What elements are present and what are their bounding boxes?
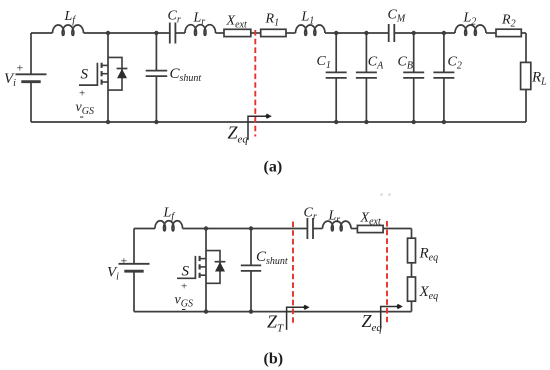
svg-text:(b): (b) — [264, 351, 284, 368]
wire: (a) CA branch upper — [365, 33, 367, 72]
capacitor C2 — [433, 72, 454, 78]
svg-text:(a): (a) — [264, 159, 283, 176]
svg-text:+: + — [79, 88, 85, 100]
svg-text:S: S — [182, 264, 190, 280]
wire: (a) right side down to RL — [525, 33, 527, 62]
wire: (a) Cr to Lr — [175, 32, 185, 34]
junction: (a) CB top node — [412, 31, 416, 35]
inductor Lf (b) — [155, 221, 183, 231]
transistor S (b) MOSFET gate lead — [177, 256, 195, 278]
svg-text:-: - — [182, 301, 186, 316]
wire: (a) L2 to R2 — [486, 32, 496, 34]
junction: (b) source node bottom — [204, 309, 208, 313]
transistor S (a) MOSFET channel bars — [101, 63, 103, 85]
voltage source Vi (b) — [119, 264, 150, 271]
capacitor CB — [403, 72, 424, 78]
wire: (a) C2 branch upper — [443, 33, 445, 72]
reactance box Xeq (vertical) — [408, 277, 416, 301]
wire: (b) Cr to Lr — [313, 228, 323, 230]
inductor Lf (a) — [53, 25, 84, 35]
faint print artifacts — [380, 193, 391, 196]
wire: (b) switch branch — [205, 229, 207, 312]
wire: (a) CB branch upper — [413, 33, 415, 72]
svg-text:L1: L1 — [301, 10, 315, 27]
wire: (a) Xext to R1 — [251, 32, 261, 34]
svg-text:ZT: ZT — [267, 312, 284, 335]
svg-text:Zeq: Zeq — [362, 311, 383, 334]
svg-text:Cr: Cr — [304, 206, 317, 223]
wire: (a) R1 to L1 — [286, 32, 296, 34]
svg-text:Vi: Vi — [107, 265, 119, 283]
svg-text:C2: C2 — [448, 55, 462, 72]
svg-text:C1: C1 — [317, 54, 331, 71]
svg-text:R1: R1 — [265, 12, 280, 29]
capacitor CM — [389, 24, 395, 42]
wire: (a) L1 to CM — [325, 32, 389, 34]
wire: (a) C1 branch upper — [335, 33, 337, 72]
impedance arrow Zeq (a) — [248, 114, 272, 140]
wire: (b) Lr to Xext — [351, 228, 357, 230]
wire: (b) Lf to Cr — [183, 228, 308, 230]
svg-text:Cr: Cr — [168, 9, 181, 26]
svg-text:Lr: Lr — [328, 209, 341, 226]
junction: (a) CA bottom node — [364, 120, 368, 124]
capacitor Cr (b) — [307, 218, 313, 239]
wire: (b) left side bottom — [133, 271, 135, 311]
svg-text:Xext: Xext — [360, 211, 381, 228]
svg-text:Xeq: Xeq — [419, 284, 439, 302]
wire: (b) Cshunt branch lower — [250, 271, 252, 312]
svg-text:Lf: Lf — [64, 9, 77, 26]
transistor S (a) MOSFET body-diode branch — [108, 57, 122, 90]
reactance box Xext (b) — [357, 225, 383, 232]
wire: (b) left side top — [133, 229, 135, 264]
wire: (a) R2 to right corner — [521, 32, 526, 34]
junction: (a) C2 bottom node — [442, 120, 446, 124]
inductor Lr (a) — [185, 25, 215, 36]
svg-text:CM: CM — [388, 8, 406, 25]
transistor S (b) MOSFET channel bars — [199, 256, 201, 278]
svg-text:Xext: Xext — [226, 14, 247, 31]
junction: (b) Cshunt bottom — [249, 309, 253, 313]
wire: (a) RL to bottom — [525, 90, 527, 123]
junction: (a) Cshunt bottom — [154, 120, 158, 124]
svg-text:Cshunt: Cshunt — [170, 66, 202, 84]
svg-text:+: + — [17, 61, 24, 75]
wire: (b) right side to Req — [411, 229, 413, 239]
inductor L1 — [296, 25, 326, 35]
svg-text:Cshunt: Cshunt — [256, 249, 288, 267]
wire: (a) bottom rail — [31, 121, 526, 123]
wire: (a) left side bottom — [30, 82, 32, 122]
capacitor Cr (a) — [170, 23, 176, 44]
svg-text:Lr: Lr — [193, 11, 206, 28]
capacitor Cshunt (b) — [241, 265, 261, 271]
transistor S (a) MOSFET gate lead — [79, 63, 97, 85]
wire: (b) Xext to right corner — [383, 228, 411, 230]
transistor S (b) MOSFET drain/body/source leads — [200, 259, 206, 276]
svg-text:RL: RL — [531, 70, 547, 88]
capacitor Cshunt (a) — [146, 71, 168, 77]
wire: (a) Cshunt branch upper — [155, 33, 157, 71]
cut line (red dashed) at Zeq (b) — [386, 221, 388, 325]
junction: (b) drain node top — [204, 226, 208, 230]
wire: (a) Cshunt branch lower — [155, 76, 157, 122]
wire: (a) Lr to Xext — [216, 32, 225, 34]
svg-text:L2: L2 — [463, 11, 477, 28]
svg-text:Req: Req — [419, 246, 439, 264]
wire: (a) CA branch lower — [365, 78, 367, 122]
impedance arrow Zeq (b) — [381, 304, 403, 329]
svg-text:Lf: Lf — [163, 206, 176, 223]
junction: (a) CB bottom node — [412, 120, 416, 124]
wire: (b) Req to Xeq — [411, 263, 413, 277]
transistor S (a) MOSFET body diode — [117, 69, 128, 79]
svg-text:+: + — [121, 254, 128, 268]
junction: (a) source node bottom — [106, 120, 110, 124]
capacitor CA — [356, 72, 377, 78]
svg-text:Vi: Vi — [4, 71, 16, 89]
wire: (a) CB branch lower — [413, 78, 415, 122]
junction: (a) C1 top node — [334, 31, 338, 35]
svg-text:+: + — [181, 281, 187, 293]
wire: (b) top-left to Lf — [134, 228, 155, 230]
impedance arrow ZT (b) — [287, 305, 310, 330]
wire: (a) CM to L2 — [394, 32, 455, 34]
transistor S (b) MOSFET body diode — [215, 262, 226, 272]
cut line (red dashed) at ZT (b) — [292, 222, 294, 324]
svg-text:R2: R2 — [501, 13, 516, 30]
wire: (a) C2 branch lower — [443, 78, 445, 122]
junction: (a) C1 bottom node — [334, 120, 338, 124]
junction: (a) Cshunt top — [154, 31, 158, 35]
voltage source Vi (a) — [16, 74, 47, 81]
wire: (a) left side top — [30, 33, 32, 74]
svg-text:S: S — [81, 67, 89, 83]
resistor R2 — [496, 29, 521, 36]
svg-text:vGS: vGS — [76, 100, 94, 117]
resistor box Req (vertical) — [408, 238, 416, 263]
svg-text:Zeq: Zeq — [228, 123, 249, 146]
junction: (a) drain node top — [106, 31, 110, 35]
svg-text:CA: CA — [368, 55, 384, 72]
wire: (a) Lf to Cr — [84, 32, 170, 34]
junction: (a) CA top node — [364, 31, 368, 35]
junction: (b) Cshunt top — [249, 226, 253, 230]
transistor S (a) MOSFET drain/body/source leads — [102, 65, 108, 82]
wire: (b) bottom rail — [134, 311, 412, 313]
resistor R1 — [261, 29, 286, 36]
svg-text:-: - — [80, 108, 84, 123]
wire: (a) C1 branch lower — [335, 78, 337, 122]
resistor RL (vertical) — [521, 62, 531, 89]
wire: (b) Xeq to bottom — [411, 301, 413, 311]
wire: (a) top-left to Lf — [31, 32, 53, 34]
cut line (red dashed) at Zeq (a) — [254, 30, 256, 137]
transistor S (b) MOSFET body-diode branch — [206, 251, 220, 284]
capacitor C1 — [326, 72, 347, 78]
svg-text:CB: CB — [398, 55, 413, 72]
inductor Lr (b) — [323, 221, 352, 231]
wire: (b) Cshunt branch upper — [250, 229, 252, 266]
reactance box Xext (a) — [224, 29, 251, 36]
junction: (a) C2 top node — [442, 31, 446, 35]
wire: (a) switch branch — [107, 33, 109, 122]
inductor L2 — [455, 25, 486, 35]
